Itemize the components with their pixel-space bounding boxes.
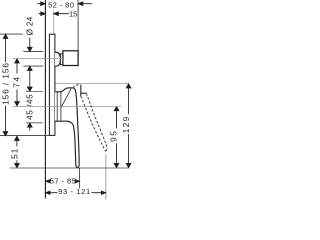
svg-text:156 / 156: 156 / 156	[2, 62, 11, 105]
plate face extension line (top)	[53, 11, 55, 35]
knob end extension line	[77, 0, 79, 51]
dim column Ø24 / 45-45	[28, 38, 33, 131]
knob cap	[55, 52, 61, 66]
svg-text:129: 129	[122, 115, 131, 133]
lever hub inner vertical	[60, 92, 62, 121]
lever grip inner diagonal	[61, 88, 71, 107]
lever hub flange line	[56, 92, 58, 121]
dim column 95	[114, 107, 119, 168]
handle axis centerline	[13, 106, 122, 108]
svg-text:95: 95	[110, 130, 119, 142]
svg-text:93 - 121: 93 - 121	[58, 187, 91, 196]
knob end cap	[63, 51, 78, 66]
dim column 51	[15, 136, 20, 168]
dim 15 right arrow	[54, 12, 69, 16]
dim 52-80 line left arrow	[37, 2, 45, 6]
bottom reference line y168	[10, 167, 129, 169]
ext line below lever (57-85)	[79, 168, 81, 189]
dim Ø24 ext lines	[23, 51, 43, 53]
dim row 57-85	[46, 180, 80, 183]
svg-text:74: 74	[13, 75, 22, 87]
svg-text:Ø 24: Ø 24	[25, 16, 34, 35]
swing top ref line y83.5	[55, 83, 129, 85]
swung lever heel corner	[81, 85, 87, 97]
dim 15 left arrow	[39, 12, 46, 16]
knob neck	[61, 54, 63, 65]
lever handle solid outline	[55, 88, 79, 168]
svg-text:57 - 85: 57 - 85	[50, 177, 77, 186]
wall line	[44, 0, 46, 199]
dim column 74	[15, 59, 20, 106]
plate bottom ext line	[0, 134, 49, 136]
svg-text:51: 51	[11, 148, 20, 159]
dim column 129	[126, 84, 131, 168]
dashed swung lever inner edge	[81, 96, 105, 150]
plate top ext line	[0, 33, 23, 35]
dashed swung lever top arc	[73, 84, 80, 88]
knob axis centerline	[13, 58, 63, 60]
svg-text:15: 15	[69, 9, 77, 18]
dim 52-80 right arrow	[78, 2, 92, 6]
escutcheon plate	[49, 34, 55, 135]
svg-text:52 - 80: 52 - 80	[48, 0, 74, 9]
hub bottom ref line	[26, 122, 43, 124]
ext line swung tip	[105, 154, 107, 200]
dim row 93-121	[46, 191, 106, 194]
dim column 156/156	[3, 34, 8, 136]
swung lever tip	[105, 149, 107, 151]
dashed swung lever outer edge	[86, 93, 107, 148]
hub top ref line	[26, 91, 43, 93]
